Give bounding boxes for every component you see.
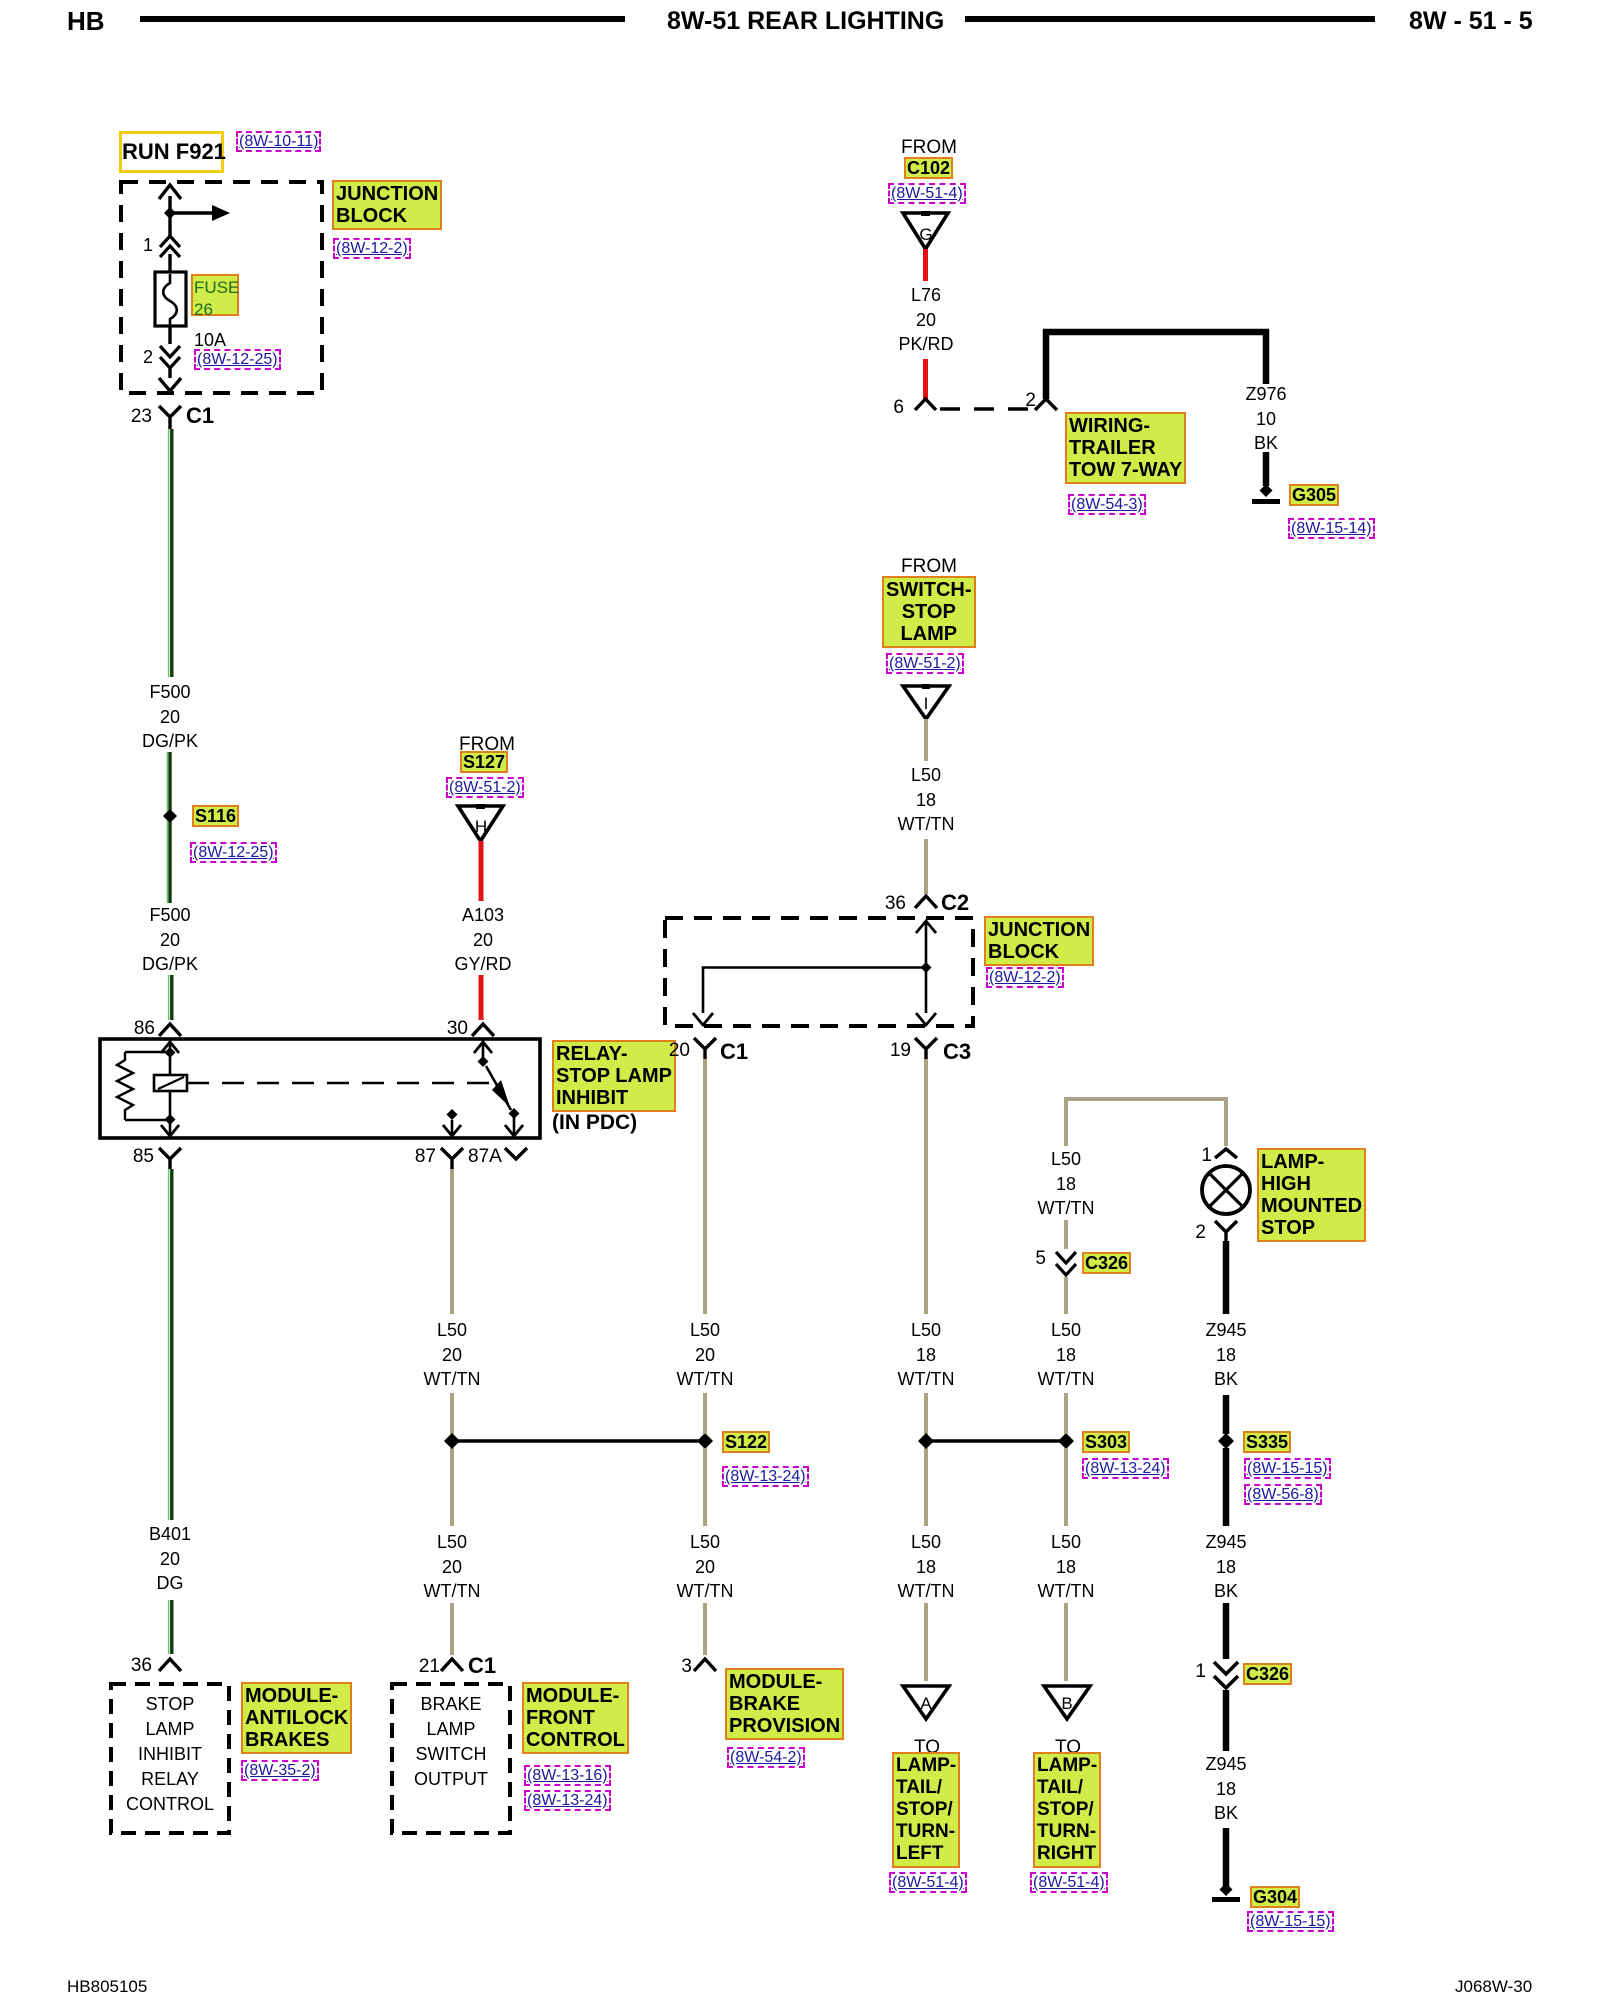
junction block JB2 (dashed box) (665, 918, 973, 1026)
header label HB (67, 10, 105, 32)
pin 87A label (468, 1146, 502, 1168)
relay arrow 85 out (161, 1125, 179, 1136)
wire label Z945 lower (1205, 1752, 1246, 1826)
wire branch arrow right (170, 211, 213, 214)
triangle A to lamp tail left (903, 1686, 949, 1719)
wire label F500 upper (142, 680, 198, 754)
wire L50 col4 (924, 1059, 928, 1314)
relay box K1 (100, 1039, 540, 1138)
label junction block JB1 (332, 180, 442, 230)
relay coil feed wire (125, 1040, 170, 1136)
relay coil resistor (117, 1052, 133, 1120)
label lamp high mounted stop (1257, 1148, 1366, 1242)
link 8W-12-2 JB2 (986, 967, 1064, 988)
wire L50 col5 to C326 (1064, 1220, 1068, 1249)
link 8W-51-4 C102 (888, 183, 966, 204)
node junction dot JB1 (164, 207, 176, 219)
link 8W-51-2 switch (886, 653, 964, 674)
connector C3 pin 19 (915, 1038, 937, 1059)
label FROM C102 (901, 137, 957, 159)
connector pin 36 ABS (159, 1659, 181, 1671)
wire label Z976 (1245, 382, 1286, 456)
footer left (67, 1976, 147, 1998)
connector pin 3 (694, 1659, 716, 1671)
label switch stop lamp (882, 576, 976, 648)
connector name C1 fcm (468, 1655, 496, 1677)
label splice S116 (192, 805, 239, 827)
wire label L50 from I (898, 763, 955, 837)
wire L76 upper (PK/RD) (923, 249, 928, 281)
label ground G304 (1250, 1886, 1300, 1908)
svg-text:B: B (1061, 1694, 1072, 1713)
wire label B401 (149, 1522, 191, 1596)
link 8W-54-2 (727, 1747, 805, 1768)
wire L76 lower (923, 359, 928, 399)
wire label L50 col3 row2 (677, 1530, 734, 1604)
header rule left (140, 16, 625, 22)
pin 20 C1 label (664, 1040, 690, 1062)
pin 2 lamp label (1190, 1222, 1206, 1244)
wire label L50 col4 row2 (898, 1530, 955, 1604)
wire L50 high mount jog (1066, 1099, 1226, 1146)
wire label L76 (898, 283, 953, 357)
link 8W-54-3 (1068, 494, 1146, 515)
wire 87 output L50 (441, 1148, 463, 1169)
connector lamp pin 2 (1215, 1221, 1237, 1241)
connector pin 30 (472, 1024, 494, 1036)
link 8W-15-15 G304 (1247, 1911, 1334, 1932)
pin 1 double chevron (160, 236, 180, 257)
JB2 internal wire from C2 (925, 921, 928, 1013)
link 8W-13-16 (524, 1765, 611, 1786)
wire L50 col4 lower (924, 1448, 928, 1526)
label junction block JB2 (984, 916, 1094, 966)
connector pin 87A (505, 1148, 527, 1159)
connector C2 pin 36 (915, 896, 937, 908)
JB2 arrow down right (916, 1013, 936, 1025)
wire B401 lower (170, 1600, 173, 1654)
wire fuse to C1 (168, 326, 171, 378)
connector C1 pin 23 (159, 406, 181, 429)
pin 21 label (414, 1656, 440, 1678)
arrow up into RUN F921 (159, 185, 181, 199)
label relay stop lamp inhibit (552, 1040, 676, 1112)
label module antilock brakes (241, 1682, 352, 1754)
label TO right (1055, 1737, 1081, 1759)
connector C326 pin 5 (1056, 1252, 1076, 1275)
pin 85 label (130, 1146, 154, 1168)
link 8W-15-14 (1288, 518, 1375, 539)
arrow down to JB1 bottom (159, 378, 181, 391)
label wiring trailer tow (1065, 412, 1186, 484)
relay pin 87 stub (451, 1120, 454, 1136)
wire label L50 col2 row1 (424, 1318, 481, 1392)
label in pdc (552, 1112, 637, 1134)
wire label Z945 row1 (1205, 1318, 1246, 1392)
pin 1 lamp label (1196, 1145, 1212, 1167)
fuse source box RUN F921 (119, 131, 224, 173)
svg-text:H: H (475, 817, 487, 836)
wire F500 upper (DG/PK) (170, 429, 173, 677)
pin 23 label (128, 406, 152, 428)
link 8W-15-15 S335 (1244, 1458, 1331, 1479)
wire label L50 col3 row1 (677, 1318, 734, 1392)
link 8W-51-4 left (889, 1872, 967, 1893)
pin 86 label (131, 1018, 155, 1040)
label lamp tail stop turn left (892, 1752, 960, 1868)
relay coil junction dots (165, 1047, 176, 1058)
wire L50 col3 lower (703, 1448, 707, 1526)
link 8W-51-2 S127 (446, 777, 524, 798)
wire L50 to C2 (924, 839, 928, 894)
relay pin 87A stub (509, 1108, 520, 1119)
splice S122 bus (452, 1439, 705, 1443)
relay switch arm (478, 1056, 489, 1067)
header rule right (965, 16, 1375, 22)
connector C326 pin 1 (1214, 1662, 1238, 1688)
svg-text:I: I (924, 694, 929, 713)
pin 36 C2 label (880, 893, 906, 915)
connector C1 pin 21 (441, 1659, 463, 1671)
label 10A (194, 329, 226, 351)
link 8W-56-8 S335 (1244, 1484, 1322, 1505)
header title (667, 10, 944, 32)
label module brake provision (725, 1668, 844, 1740)
wire L50 col5 mid (1064, 1393, 1068, 1434)
wire trailer tow jog (BK) (1046, 332, 1266, 399)
ground G305 (1260, 484, 1273, 497)
link 8W-13-24 S122 (722, 1466, 809, 1487)
label TO left (914, 1737, 940, 1759)
pin 2 double chevron (160, 346, 180, 368)
relay pin30 wire (482, 1040, 485, 1060)
pin 19 C3 label (885, 1040, 911, 1062)
connector pin 86 (159, 1024, 181, 1036)
wire L50 col3 mid (703, 1393, 707, 1434)
pin 5 label (1030, 1248, 1046, 1270)
wire label L50 col5 row2 (1038, 1530, 1095, 1604)
footer right (1455, 1976, 1532, 1998)
wire L50 col2 mid (450, 1393, 454, 1434)
pin 3 label (676, 1656, 692, 1678)
wire dashed link 6 to 2 (940, 407, 1036, 410)
connector name C1 (186, 405, 214, 427)
lamp high mounted stop bulb (1202, 1166, 1250, 1214)
triangle I from switch-stop lamp (903, 686, 949, 719)
splice S303 bus (926, 1439, 1066, 1443)
ground G304 (1220, 1883, 1233, 1896)
junction block JB1 (dashed box) (121, 182, 322, 393)
label FUSE 26 (191, 274, 239, 316)
connector name C1 JB2 (720, 1041, 748, 1063)
relay arrow 30 in (474, 1042, 492, 1053)
label connector C102 (904, 157, 953, 179)
wire label L50 col2 row2 (424, 1530, 481, 1604)
splice S116 (168, 752, 171, 903)
link 8W-12-25 splice (190, 842, 277, 863)
fuse F26 (155, 272, 186, 326)
connector pin 85 (159, 1148, 181, 1169)
pin 36 label (126, 1655, 152, 1677)
pin 1 label (137, 234, 153, 256)
label module front control (522, 1682, 629, 1754)
label splice S303 (1082, 1431, 1130, 1453)
wire L50 col3 from JB2 C1 (694, 1038, 716, 1059)
wire Z945 upper (BK) (1223, 1241, 1230, 1314)
label FROM switch-stop lamp (901, 556, 957, 578)
label connector C326 upper (1082, 1252, 1131, 1274)
pin 6 label (888, 397, 904, 419)
wire fuse feed upper (168, 196, 171, 272)
pin 2 label (137, 346, 153, 368)
pin 30 label (444, 1018, 468, 1040)
label ground G305 (1289, 484, 1339, 506)
module antilock brakes box (105, 1678, 235, 1838)
pin 87 label (412, 1146, 436, 1168)
link 8W-12-2 (333, 238, 411, 259)
relay dashed actuator line (187, 1082, 489, 1085)
wire B401 (DG) (170, 1169, 173, 1520)
label FROM S127 (459, 734, 515, 756)
wire label A103 (454, 903, 511, 977)
label lamp tail stop turn right (1033, 1752, 1101, 1868)
connector pin 6 (915, 399, 936, 410)
pin 1 C326 label (1190, 1661, 1206, 1683)
label splice S335 (1243, 1431, 1291, 1453)
label splice S122 (722, 1431, 770, 1453)
svg-text:A: A (920, 1694, 932, 1713)
wire label Z945 row2 (1205, 1530, 1246, 1604)
header page number (1409, 10, 1533, 32)
link 8W-10-11 (236, 131, 321, 152)
JB2 branch wire to C1 (703, 968, 926, 1014)
wire L50 col5 (1064, 1277, 1068, 1314)
relay coil (154, 1075, 187, 1091)
wire Z976 lower (1263, 452, 1270, 486)
triangle G from C102 (903, 213, 948, 249)
module front control box (386, 1678, 516, 1838)
wire Z945 lower (1223, 1690, 1230, 1751)
splice S335 (1218, 1433, 1234, 1449)
triangle B to lamp tail right (1044, 1686, 1090, 1719)
triangle H from S127 (458, 806, 503, 841)
label splice S127 (460, 751, 508, 773)
connector pin 2 trailer tow (1035, 399, 1057, 410)
link 8W-12-25 (194, 349, 281, 370)
wire L50 col4 mid (924, 1393, 928, 1434)
wire label L50 col5 top (1038, 1147, 1095, 1221)
connector name C3 (943, 1041, 971, 1063)
wire A103 lower (479, 975, 484, 1020)
label connector C326 lower (1243, 1663, 1292, 1685)
wire L50 col2 lower (450, 1448, 454, 1526)
pin 2 trailer label (1020, 390, 1036, 412)
link 8W-13-24 S303 (1082, 1458, 1169, 1479)
wire F500 lower (170, 975, 173, 1020)
wire label F500 lower (142, 903, 198, 977)
link 8W-13-24 fcm (524, 1790, 611, 1811)
relay arrow 86 in (161, 1042, 179, 1053)
link 8W-51-4 right (1030, 1872, 1108, 1893)
JB2 node dot (921, 962, 932, 973)
JB2 arrow down left (693, 1013, 713, 1025)
connector lamp pin 1 (1215, 1149, 1237, 1158)
wire label L50 col4 row1 (898, 1318, 955, 1392)
wire Z945 mid (1223, 1448, 1230, 1526)
link 8W-35-2 (241, 1760, 319, 1781)
wire A103 upper (GY/RD) (479, 841, 484, 901)
svg-text:G: G (919, 225, 932, 244)
JB2 arrow up at C2 (916, 921, 936, 933)
wire L50 col5 lower (1064, 1448, 1068, 1526)
connector name C2 (941, 892, 969, 914)
wire label L50 col5 row1 (1038, 1318, 1095, 1392)
wire L50 from I (924, 719, 928, 761)
